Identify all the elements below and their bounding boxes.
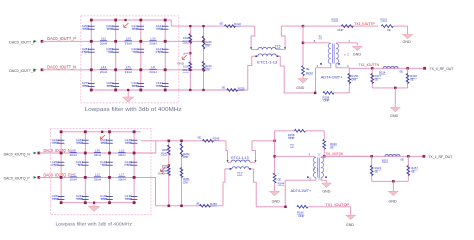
junction bbox=[108, 176, 111, 179]
ground bbox=[346, 215, 356, 219]
resistor R215 bbox=[189, 34, 192, 44]
junction bbox=[302, 25, 305, 28]
svg-text:DNI: DNI bbox=[351, 78, 356, 82]
wire N rail bbox=[42, 69, 179, 71]
wire shunt column 2 bbox=[115, 20, 117, 90]
svg-text:L71: L71 bbox=[126, 65, 131, 69]
svg-text:DNP: DNP bbox=[299, 214, 305, 218]
svg-text:DNP: DNP bbox=[52, 197, 58, 201]
svg-text:DAC0_IOUTQ_P: DAC0_IOUTQ_P bbox=[4, 176, 30, 181]
junction bbox=[164, 89, 167, 92]
svg-text:DNP: DNP bbox=[132, 27, 138, 31]
capacitor C143 bbox=[106, 139, 113, 141]
inductor L62 bbox=[100, 40, 107, 43]
svg-text:DAC0_IOUTT_N: DAC0_IOUTT_N bbox=[47, 65, 76, 70]
wire T2 pin3 to ground bbox=[320, 178, 322, 181]
wire shunt rail bbox=[372, 87, 407, 89]
capacitor C247 bbox=[82, 161, 89, 163]
wire branch to T1 pin6 bbox=[302, 26, 304, 66]
resistor R158 bbox=[294, 129, 305, 132]
wire T2 pin4 bbox=[275, 155, 314, 157]
svg-text:1.5pF: 1.5pF bbox=[81, 50, 89, 54]
capacitor C281 bbox=[88, 48, 95, 50]
ground tap bbox=[189, 52, 191, 54]
capacitor C192 bbox=[106, 195, 113, 197]
wire bottom to R150 bbox=[334, 92, 349, 94]
svg-text:DNP: DNP bbox=[77, 141, 83, 145]
svg-text:R239: R239 bbox=[238, 86, 245, 90]
resistor R326 bbox=[407, 68, 409, 88]
junction bbox=[114, 40, 117, 43]
ground bbox=[93, 203, 95, 207]
resistor R251 bbox=[180, 168, 183, 178]
junction bbox=[139, 40, 142, 43]
svg-text:L10: L10 bbox=[119, 148, 124, 152]
svg-text:0E: 0E bbox=[375, 169, 379, 173]
junction bbox=[371, 67, 374, 70]
capacitor C242 bbox=[58, 139, 65, 141]
svg-text:0E: 0E bbox=[411, 169, 415, 173]
node DAC0_IOUTQ_P bbox=[37, 176, 40, 179]
svg-text:ADT4-1WT+: ADT4-1WT+ bbox=[321, 74, 343, 79]
junction bbox=[114, 68, 117, 71]
svg-text:GND: GND bbox=[158, 172, 166, 176]
junction bbox=[273, 155, 276, 158]
junction bbox=[407, 155, 410, 158]
svg-text:2: 2 bbox=[347, 53, 349, 57]
svg-text:6: 6 bbox=[310, 176, 312, 180]
wire T1 pin6 bbox=[303, 42, 329, 44]
ferrite bead B114 bbox=[383, 67, 398, 69]
wire N rail jog up bbox=[151, 141, 156, 153]
svg-text:Lowpass filter with 3db of 400: Lowpass filter with 3db of 400MHz bbox=[85, 107, 182, 113]
svg-text:0E: 0E bbox=[410, 78, 414, 82]
junction bbox=[60, 201, 63, 204]
wire shunt column 3 bbox=[140, 20, 142, 90]
junction bbox=[90, 19, 93, 22]
svg-text:6pF: 6pF bbox=[133, 50, 138, 54]
transformer T1 ADT4-1WT+ bbox=[328, 44, 331, 64]
svg-text:L36: L36 bbox=[95, 148, 100, 152]
svg-text:6pF: 6pF bbox=[102, 163, 107, 167]
wire T1 pin1 to ground bbox=[336, 42, 357, 44]
transformer T15 secondary winding bbox=[252, 55, 258, 57]
svg-text:20nH: 20nH bbox=[100, 70, 107, 74]
inductor L10 bbox=[118, 151, 125, 154]
svg-text:DNP: DNP bbox=[132, 84, 138, 88]
junction bbox=[202, 69, 204, 71]
wire shunt column 3 bbox=[109, 132, 111, 203]
svg-text:0E: 0E bbox=[222, 85, 226, 89]
svg-text:20nH: 20nH bbox=[149, 70, 156, 74]
junction bbox=[180, 205, 183, 208]
resistor R123 bbox=[371, 156, 373, 181]
svg-text:DNP: DNP bbox=[338, 28, 344, 32]
capacitor C279 bbox=[88, 82, 95, 84]
lowpass filter dashed enclosure bbox=[81, 16, 179, 103]
wire divider line B bbox=[203, 26, 205, 90]
svg-text:GND: GND bbox=[322, 190, 331, 194]
svg-text:DNP: DNP bbox=[324, 99, 330, 103]
junction bbox=[314, 92, 317, 95]
svg-text:R222: R222 bbox=[234, 22, 241, 26]
junction bbox=[168, 205, 171, 208]
svg-text:TX_1_RF_OUT: TX_1_RF_OUT bbox=[428, 154, 453, 159]
junction bbox=[108, 152, 111, 155]
svg-text:1.5pF: 1.5pF bbox=[155, 50, 163, 54]
svg-text:L42: L42 bbox=[71, 173, 76, 177]
no-connect flag on shield rail bbox=[124, 23, 129, 27]
wire P rail jog down bbox=[151, 177, 156, 205]
wire to ground bbox=[394, 25, 408, 27]
junction bbox=[302, 42, 305, 45]
svg-text:B115: B115 bbox=[382, 159, 389, 163]
resistor R236 bbox=[167, 167, 170, 176]
svg-text:DNP: DNP bbox=[157, 27, 163, 31]
svg-text:DNI: DNI bbox=[183, 155, 188, 159]
capacitor C135 bbox=[131, 195, 138, 197]
wire up to R158 bbox=[274, 131, 276, 141]
svg-text:TX1_IOUTQP: TX1_IOUTQP bbox=[325, 203, 349, 207]
svg-text:6pF: 6pF bbox=[78, 163, 83, 167]
wire divider line A bbox=[168, 141, 170, 206]
ground bbox=[392, 181, 394, 191]
ground bbox=[403, 34, 413, 38]
wire output line bbox=[324, 155, 423, 157]
svg-text:DNP: DNP bbox=[52, 141, 58, 145]
junction bbox=[90, 89, 93, 92]
resistor R117 bbox=[371, 68, 373, 88]
resistor R214 bbox=[302, 66, 305, 76]
svg-text:2: 2 bbox=[317, 167, 319, 171]
svg-text:20nH: 20nH bbox=[118, 177, 125, 181]
wire over to R160 bbox=[305, 130, 324, 132]
junction bbox=[114, 19, 117, 22]
resistor R222 bbox=[225, 25, 236, 28]
ground bbox=[353, 46, 363, 50]
svg-text:L29: L29 bbox=[126, 37, 131, 41]
node DAC0_IOUTT_N bbox=[41, 68, 44, 71]
wire shunt column 1 bbox=[60, 132, 62, 203]
node DAC0_IOUTT_P bbox=[41, 40, 44, 43]
junction bbox=[90, 68, 93, 71]
capacitor C147 bbox=[162, 48, 169, 50]
svg-text:GND: GND bbox=[403, 40, 412, 44]
svg-text:T17: T17 bbox=[237, 172, 243, 176]
resistor R243 bbox=[167, 145, 170, 155]
junction bbox=[323, 155, 326, 158]
svg-text:T2: T2 bbox=[290, 143, 294, 147]
svg-text:T1: T1 bbox=[318, 35, 322, 39]
wire divider line A bbox=[189, 26, 191, 90]
svg-text:DAC0_IOUTQ_N: DAC0_IOUTQ_N bbox=[4, 151, 30, 156]
svg-text:20nH: 20nH bbox=[118, 153, 125, 157]
resistor R216 bbox=[202, 62, 205, 72]
svg-text:DNP: DNP bbox=[289, 136, 295, 140]
svg-text:L41: L41 bbox=[101, 65, 106, 69]
svg-text:DNP: DNP bbox=[83, 84, 89, 88]
junction bbox=[189, 69, 191, 71]
svg-text:20nH: 20nH bbox=[70, 153, 77, 157]
ground bbox=[322, 183, 332, 187]
junction bbox=[84, 176, 87, 179]
junction bbox=[84, 152, 87, 155]
capacitor C261 bbox=[58, 195, 65, 197]
svg-text:DNP: DNP bbox=[83, 27, 89, 31]
inductor L41 bbox=[100, 68, 107, 71]
junction bbox=[189, 25, 191, 27]
junction bbox=[392, 180, 395, 183]
resistor R239 bbox=[227, 89, 238, 92]
wire T1 pin4 bbox=[316, 67, 331, 69]
svg-text:0E: 0E bbox=[198, 136, 202, 140]
wire T17 secondary left to bottom rail bbox=[223, 169, 225, 206]
svg-text:TX1_IOUTQN: TX1_IOUTQN bbox=[326, 152, 344, 156]
svg-text:DAC0_IOUTQ_P: DAC0_IOUTQ_P bbox=[44, 172, 71, 177]
lowpass filter dashed enclosure bbox=[50, 129, 151, 215]
svg-text:5: 5 bbox=[318, 152, 320, 156]
inductor L9 bbox=[150, 68, 157, 71]
capacitor C129 bbox=[131, 139, 138, 141]
svg-text:DNP: DNP bbox=[107, 27, 113, 31]
svg-text:GND: GND bbox=[390, 114, 399, 118]
svg-text:0E: 0E bbox=[196, 201, 200, 205]
svg-text:DNI: DNI bbox=[183, 180, 188, 184]
svg-text:1: 1 bbox=[348, 39, 350, 43]
svg-text:6pF: 6pF bbox=[108, 50, 113, 54]
svg-text:R215: R215 bbox=[183, 40, 190, 44]
svg-text:R216: R216 bbox=[205, 64, 212, 68]
resistor R202 bbox=[341, 25, 353, 28]
junction bbox=[284, 206, 287, 209]
junction bbox=[202, 89, 204, 91]
svg-text:Lowpass filter with 3db of 400: Lowpass filter with 3db of 400MHz bbox=[56, 221, 133, 226]
wire pin6 down bbox=[284, 180, 286, 207]
svg-text:GND: GND bbox=[177, 62, 185, 66]
svg-text:1000: 1000 bbox=[162, 148, 168, 152]
svg-text:DNP: DNP bbox=[125, 141, 131, 145]
ground bbox=[394, 88, 396, 107]
wire shunt rail bbox=[372, 180, 409, 182]
ferrite bead B115 bbox=[385, 155, 400, 157]
junction bbox=[202, 40, 204, 42]
svg-text:R214: R214 bbox=[306, 71, 313, 75]
junction bbox=[164, 19, 167, 22]
resistor R156 bbox=[297, 205, 308, 208]
wire P rail link bbox=[179, 40, 204, 42]
wire branch down bbox=[274, 141, 276, 173]
svg-text:33nH: 33nH bbox=[125, 70, 132, 74]
wire bottom rail bbox=[61, 202, 136, 204]
junction bbox=[180, 140, 183, 143]
svg-text:20nH: 20nH bbox=[70, 177, 77, 181]
svg-text:R251: R251 bbox=[183, 177, 190, 181]
junction bbox=[60, 176, 63, 179]
wire N rail bbox=[39, 176, 151, 178]
svg-text:20nH: 20nH bbox=[100, 41, 107, 45]
svg-text:DNP: DNP bbox=[101, 197, 107, 201]
ground bbox=[127, 90, 129, 97]
resistor R150 bbox=[348, 68, 350, 93]
wire T15 out to T1 bbox=[281, 25, 303, 27]
capacitor C204 bbox=[112, 25, 119, 27]
inductor L42 bbox=[70, 176, 77, 179]
capacitor C141 bbox=[138, 25, 145, 27]
wire shunt column 2 bbox=[84, 132, 86, 203]
svg-text:GND: GND bbox=[346, 223, 355, 227]
wire top shield rail bbox=[61, 131, 141, 133]
svg-text:x: x bbox=[344, 52, 346, 56]
junction bbox=[139, 19, 142, 22]
svg-text:L12: L12 bbox=[95, 173, 100, 177]
capacitor C148 bbox=[131, 161, 138, 163]
junction bbox=[133, 201, 136, 204]
wire T2 pin5 out bbox=[321, 155, 371, 157]
capacitor C102 bbox=[138, 48, 145, 50]
inductor L36 bbox=[94, 151, 101, 154]
capacitor C249 bbox=[82, 195, 89, 197]
svg-text:GND: GND bbox=[272, 199, 281, 203]
svg-text:L17: L17 bbox=[119, 173, 124, 177]
wire T17 out bbox=[252, 140, 275, 142]
wire bottom link bbox=[179, 89, 248, 91]
wire shunt column 4 bbox=[164, 20, 166, 90]
svg-text:L62: L62 bbox=[101, 37, 106, 41]
node DAC0_IOUTQ_N bbox=[37, 152, 40, 155]
svg-text:GND: GND bbox=[389, 199, 398, 203]
wire bottom rail bbox=[91, 89, 179, 91]
junction bbox=[84, 201, 87, 204]
capacitor C133 bbox=[162, 82, 169, 84]
resistor R213 bbox=[189, 62, 192, 71]
capacitor C283 bbox=[112, 82, 119, 84]
resistor R208 bbox=[323, 92, 334, 95]
svg-text:L30: L30 bbox=[150, 37, 155, 41]
svg-text:ADT4-1WT+: ADT4-1WT+ bbox=[291, 188, 312, 193]
svg-text:DNP: DNP bbox=[125, 197, 131, 201]
svg-text:1000: 1000 bbox=[183, 36, 189, 40]
wire T15 secondary right down bbox=[280, 56, 315, 93]
transformer T17 primary winding bbox=[228, 161, 232, 163]
wire from T17 primary right bbox=[252, 141, 256, 161]
resistor R252 bbox=[180, 144, 183, 157]
svg-text:R202: R202 bbox=[332, 18, 339, 22]
svg-text:33nH: 33nH bbox=[94, 153, 101, 157]
svg-text:1.5pF: 1.5pF bbox=[51, 163, 59, 167]
junction bbox=[90, 40, 93, 43]
svg-text:0E: 0E bbox=[387, 28, 391, 32]
svg-text:R245: R245 bbox=[213, 137, 220, 141]
inductor L68 bbox=[70, 151, 77, 154]
junction bbox=[139, 68, 142, 71]
inductor L12 bbox=[94, 176, 101, 179]
svg-text:GND: GND bbox=[296, 86, 305, 90]
svg-text:DAC0_IOUTT_P: DAC0_IOUTT_P bbox=[9, 40, 35, 45]
wire P rail bbox=[39, 152, 151, 154]
wire shield wrap bbox=[171, 20, 255, 26]
junction bbox=[406, 67, 409, 70]
svg-text:20nH: 20nH bbox=[149, 41, 156, 45]
wire to T15 primary left bbox=[251, 26, 255, 47]
svg-text:DNP: DNP bbox=[107, 84, 113, 88]
wire T17 secondary right down bbox=[253, 169, 285, 207]
svg-text:33nH: 33nH bbox=[125, 41, 132, 45]
port TX_1_RF_OUT bbox=[423, 155, 426, 158]
svg-text:8: 8 bbox=[314, 39, 316, 43]
resistor R160 bbox=[323, 139, 326, 149]
junction bbox=[394, 87, 397, 90]
no-connect flag on shield rail bbox=[100, 135, 105, 139]
capacitor C252 bbox=[58, 161, 65, 163]
svg-text:1000: 1000 bbox=[183, 64, 189, 68]
junction bbox=[273, 140, 276, 143]
wire top shield rail bbox=[91, 19, 171, 21]
junction bbox=[164, 40, 167, 43]
resistor R246 bbox=[202, 36, 205, 49]
svg-text:DNI: DNI bbox=[205, 43, 210, 47]
svg-text:DNP: DNP bbox=[101, 141, 107, 145]
transformer T17 secondary winding bbox=[225, 168, 232, 170]
junction bbox=[189, 89, 191, 91]
svg-text:DAC0_IOUTQ_N: DAC0_IOUTQ_N bbox=[44, 148, 71, 153]
junction bbox=[202, 25, 204, 27]
svg-text:3: 3 bbox=[318, 176, 320, 180]
ground bbox=[274, 183, 276, 191]
svg-text:R250: R250 bbox=[210, 202, 217, 206]
svg-text:33nH: 33nH bbox=[94, 177, 101, 181]
svg-text:DNI: DNI bbox=[205, 67, 210, 71]
wire to ground right bbox=[308, 206, 351, 208]
wire top link bbox=[141, 140, 226, 142]
inductor L29 bbox=[125, 40, 132, 43]
wire P rail bbox=[42, 40, 179, 42]
svg-text:R201: R201 bbox=[381, 18, 388, 22]
transformer T15 primary winding bbox=[251, 49, 258, 51]
svg-text:TX1_IOUTTP: TX1_IOUTTP bbox=[354, 22, 375, 26]
wire N rail link bbox=[179, 69, 204, 71]
svg-text:DAC0_IOUTT_P: DAC0_IOUTT_P bbox=[47, 36, 76, 41]
junction bbox=[133, 152, 136, 155]
capacitor C196 bbox=[138, 82, 145, 84]
ground bbox=[302, 76, 304, 79]
junction bbox=[139, 89, 142, 92]
svg-text:0E: 0E bbox=[400, 70, 404, 74]
port TX_0_RF_OUT bbox=[423, 67, 426, 70]
ground tap bbox=[168, 164, 170, 166]
resistor R245 bbox=[203, 139, 214, 142]
svg-text:T15: T15 bbox=[275, 45, 281, 49]
junction bbox=[108, 130, 111, 133]
wire divider line B bbox=[181, 141, 183, 206]
svg-text:0E: 0E bbox=[220, 21, 224, 25]
wire T15 secondary left to bottom rail bbox=[248, 56, 252, 90]
svg-text:0E: 0E bbox=[401, 157, 405, 161]
resistor R201 bbox=[381, 25, 393, 28]
wire T1 pin3 bbox=[335, 64, 337, 68]
resistor R244 bbox=[273, 173, 276, 183]
wire T1 pin4 down to bottom bbox=[315, 68, 317, 93]
svg-text:3: 3 bbox=[347, 64, 349, 68]
wire T2 pin6 bbox=[285, 179, 315, 181]
svg-text:GND: GND bbox=[353, 53, 362, 57]
wire output line bbox=[349, 67, 424, 69]
junction bbox=[164, 68, 167, 71]
svg-text:R213: R213 bbox=[183, 68, 190, 72]
capacitor C193 bbox=[106, 161, 113, 163]
svg-text:DNP: DNP bbox=[77, 197, 83, 201]
resistor R157 bbox=[407, 156, 409, 181]
svg-text:0E: 0E bbox=[375, 78, 379, 82]
